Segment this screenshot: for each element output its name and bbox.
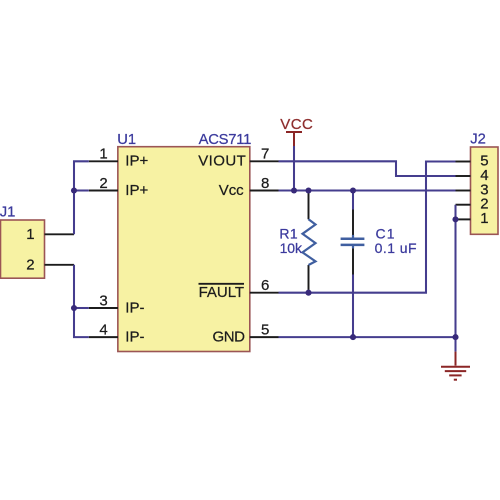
svg-text:2: 2: [26, 256, 34, 273]
svg-text:IP-: IP-: [125, 299, 144, 316]
svg-text:U1: U1: [117, 132, 136, 148]
svg-text:4: 4: [99, 321, 107, 338]
svg-text:2: 2: [99, 175, 107, 192]
svg-text:FAULT: FAULT: [199, 284, 245, 301]
svg-text:VIOUT: VIOUT: [198, 153, 246, 170]
svg-text:J2: J2: [470, 132, 486, 148]
svg-text:7: 7: [261, 146, 269, 163]
svg-text:IP+: IP+: [125, 182, 148, 199]
svg-text:1: 1: [99, 146, 107, 163]
svg-text:3: 3: [99, 292, 107, 309]
svg-text:1: 1: [26, 226, 34, 243]
svg-text:0.1 uF: 0.1 uF: [375, 240, 417, 256]
svg-text:ACS711: ACS711: [199, 132, 252, 148]
svg-text:IP+: IP+: [125, 153, 148, 170]
svg-text:J1: J1: [0, 205, 15, 221]
svg-text:8: 8: [261, 175, 269, 192]
svg-text:VCC: VCC: [280, 116, 313, 133]
svg-text:Vcc: Vcc: [219, 182, 244, 199]
svg-text:GND: GND: [213, 328, 246, 345]
svg-text:IP-: IP-: [125, 328, 144, 345]
svg-text:5: 5: [261, 321, 269, 338]
svg-text:6: 6: [261, 277, 269, 294]
svg-text:10k: 10k: [280, 240, 303, 256]
svg-text:1: 1: [480, 210, 488, 227]
